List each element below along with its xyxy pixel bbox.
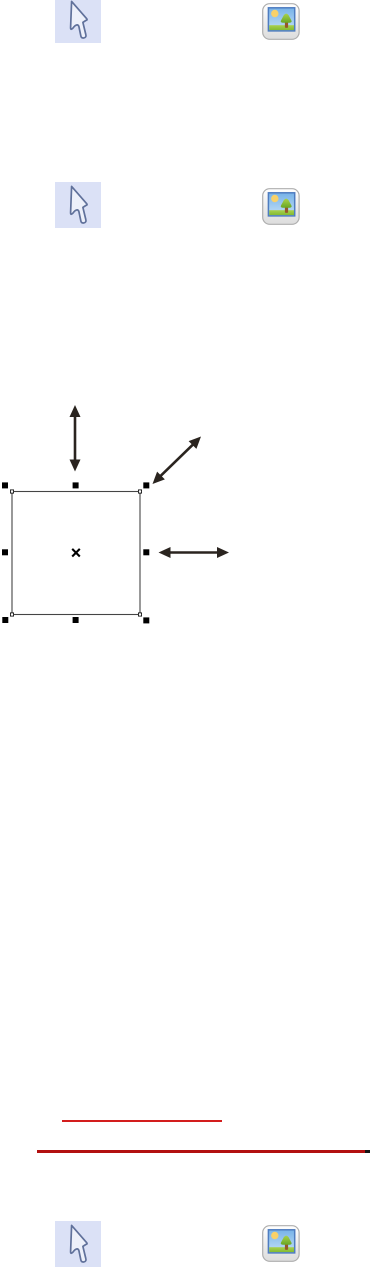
black handle top-right [143,482,149,488]
horizontal resize arrow [159,547,230,558]
selection-handles diagram [0,395,240,630]
center x mark [72,549,80,557]
short red rule [62,1120,222,1122]
insert image icon (top row) [262,3,300,40]
selection rectangle outline [12,492,140,615]
open corner handle bottom-right [138,613,141,616]
black handle bottom-left [2,617,8,623]
open corner handle top-right [138,490,141,493]
black handle bottom-center [73,617,79,623]
select tool cursor icon (second row) [55,182,101,228]
open corner handle bottom-left [10,613,13,616]
select tool cursor icon (bottom row, cropped at bottom) [55,1221,101,1267]
select tool cursor icon (top row, cropped at top) [55,0,101,43]
open corner handle top-left [10,490,13,493]
long red rule [37,1150,365,1152]
black handle top-left [2,482,8,488]
insert image icon (second row) [262,188,300,225]
black handle middle-right [143,549,149,555]
black end segment of long rule [365,1150,370,1152]
black handle top-center [73,482,79,488]
black handle bottom-right [143,617,149,623]
vertical resize arrow [70,405,81,472]
black handle middle-left [2,549,8,555]
diagonal resize arrow [153,437,202,485]
insert image icon (bottom row) [262,1225,300,1262]
